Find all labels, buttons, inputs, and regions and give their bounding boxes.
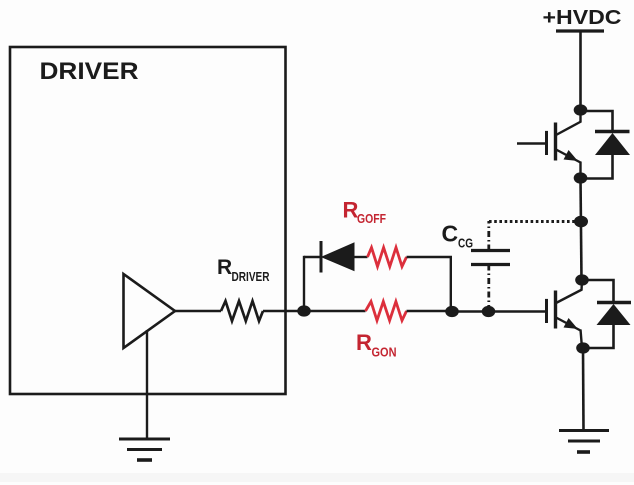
wire node A riser: [303, 256, 305, 311]
resistor RGON: [366, 302, 407, 321]
dash-dot link CCG bottom: [487, 265, 490, 309]
label RGOFF: [343, 197, 387, 226]
transistor Q1: [547, 110, 582, 178]
wire gate lead Q2: [489, 310, 546, 312]
wire emitter to ground: [582, 348, 585, 430]
node F CCG tap: [574, 216, 588, 228]
node C: [482, 306, 496, 317]
wire HVDC rail: [579, 31, 582, 110]
diode D1: [321, 241, 354, 273]
label RDRIVER: [217, 256, 270, 284]
label RGON: [356, 330, 397, 360]
wire phase rail: [581, 178, 582, 280]
wire right riser: [450, 257, 452, 311]
dash-dot link CCG top: [487, 221, 490, 251]
bottom scan band: [0, 473, 634, 482]
svg-text:+HVDC: +HVDC: [543, 6, 622, 29]
ground (power): [559, 431, 609, 453]
wire buffer output: [175, 310, 221, 312]
node H Q2 emitter: [576, 342, 590, 353]
buffer amplifier A1: [124, 274, 176, 348]
svg-text:CG: CG: [458, 236, 473, 251]
wire diode to RGOFF: [354, 256, 368, 258]
wire RGOFF to right riser: [407, 256, 453, 258]
resistor RGOFF: [368, 248, 407, 267]
wire buffer ground stem: [146, 330, 148, 438]
HVDC supply bar: [556, 29, 604, 32]
node D Q1 collector: [574, 104, 588, 115]
wire node B to node C: [452, 310, 489, 312]
wire top branch to diode: [304, 256, 321, 258]
driver box: [10, 47, 286, 394]
wire RGON to node B: [407, 310, 453, 312]
node B: [445, 306, 459, 317]
diode D2 freewheel Q1: [581, 111, 631, 179]
node E Q1 emitter: [574, 172, 588, 183]
svg-text:DRIVER: DRIVER: [40, 58, 139, 85]
svg-text:R: R: [356, 330, 372, 355]
dotted link CCG to midpoint node: [489, 220, 576, 223]
resistor RDRIVER: [221, 301, 263, 321]
capacitor CCG: [471, 251, 510, 265]
svg-text:GOFF: GOFF: [357, 212, 386, 226]
ground (driver): [119, 439, 170, 460]
svg-text:DRIVER: DRIVER: [232, 270, 270, 284]
node G Q2 collector: [575, 274, 589, 285]
label CCG: [442, 221, 474, 251]
diode D3 freewheel Q2: [582, 280, 631, 348]
node A: [297, 305, 311, 316]
svg-text:C: C: [442, 221, 459, 247]
wire gate lead Q1: [517, 142, 545, 144]
svg-text:GON: GON: [372, 346, 397, 360]
transistor Q2: [547, 280, 583, 348]
wire node A to RGON: [304, 310, 366, 312]
svg-text:R: R: [217, 256, 232, 279]
wire RDRIVER to node A: [263, 310, 304, 312]
